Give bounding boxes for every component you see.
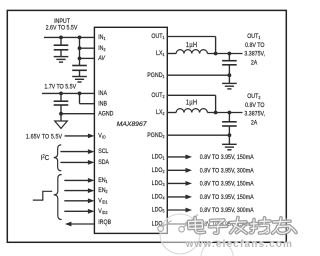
svg-text:LDO5: LDO5 — [152, 207, 166, 214]
svg-text:VID1: VID1 — [98, 198, 108, 205]
svg-text:SDA: SDA — [98, 160, 109, 167]
svg-text:MAX8967: MAX8967 — [117, 121, 147, 128]
svg-text:1µH: 1µH — [186, 99, 198, 107]
svg-text:INPUT: INPUT — [54, 18, 70, 25]
svg-text:1µH: 1µH — [186, 41, 198, 49]
svg-text:0.8V TO 3.95V, 150mA: 0.8V TO 3.95V, 150mA — [200, 194, 254, 201]
svg-text:0.8V TO: 0.8V TO — [245, 43, 265, 50]
svg-text:OUT1: OUT1 — [247, 34, 261, 41]
svg-text:OUT2: OUT2 — [247, 94, 261, 101]
svg-text:0.8V TO 3.95V, 300mA: 0.8V TO 3.95V, 300mA — [200, 208, 254, 215]
svg-text:VID2: VID2 — [98, 208, 108, 215]
svg-text:1.7V TO 5.5V: 1.7V TO 5.5V — [44, 84, 76, 91]
svg-text:0.8V TO 3.95V, 150mA: 0.8V TO 3.95V, 150mA — [200, 181, 254, 188]
svg-text:VIO: VIO — [98, 133, 106, 140]
svg-text:I2C: I2C — [41, 154, 49, 162]
svg-text:SCL: SCL — [98, 149, 109, 156]
svg-text:IRQB: IRQB — [98, 219, 111, 226]
svg-text:AGND: AGND — [98, 111, 114, 118]
svg-text:INB: INB — [98, 101, 107, 108]
svg-text:PGND1: PGND1 — [147, 72, 165, 79]
svg-text:PGND2: PGND2 — [147, 132, 165, 139]
svg-text:2.6V TO 5.5V: 2.6V TO 5.5V — [46, 25, 78, 32]
svg-text:LDO2: LDO2 — [152, 167, 166, 174]
svg-text:0.8V TO: 0.8V TO — [245, 103, 265, 110]
svg-text:LX1: LX1 — [156, 51, 165, 58]
svg-text:LDO3: LDO3 — [152, 181, 166, 188]
svg-text:INA: INA — [98, 91, 107, 98]
svg-text:LDO1: LDO1 — [152, 154, 166, 161]
svg-text:IN2: IN2 — [98, 45, 106, 52]
svg-text:3.3875V,: 3.3875V, — [244, 51, 265, 58]
svg-text:2A: 2A — [251, 120, 257, 127]
svg-text:3.3875V,: 3.3875V, — [244, 111, 265, 118]
svg-text:IN1: IN1 — [98, 35, 106, 42]
svg-text:www.elecfans.com: www.elecfans.com — [185, 239, 294, 250]
svg-text:2A: 2A — [251, 60, 257, 67]
svg-text:OUT2: OUT2 — [151, 92, 165, 99]
svg-text:0.8V TO 3.95V, 150mA: 0.8V TO 3.95V, 150mA — [200, 154, 254, 161]
svg-text:0.8V TO 3.95V, 300mA: 0.8V TO 3.95V, 300mA — [200, 168, 254, 175]
svg-text:OUT1: OUT1 — [151, 34, 165, 41]
svg-text:EN2: EN2 — [98, 188, 108, 195]
svg-text:LX2: LX2 — [156, 110, 165, 117]
svg-text:LDO4: LDO4 — [152, 194, 166, 201]
svg-text:EN1: EN1 — [98, 178, 108, 185]
svg-text:AV: AV — [97, 56, 106, 63]
svg-text:1.65V TO 5.5V: 1.65V TO 5.5V — [26, 134, 62, 141]
